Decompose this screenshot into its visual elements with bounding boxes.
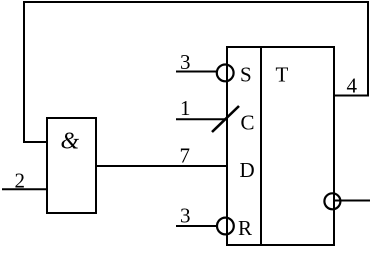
inversion bubble at S input (217, 65, 234, 82)
svg-text:&: & (61, 129, 80, 155)
wire: C clock input (net 1) (176, 118, 227, 120)
wire: S input (net 3) (176, 71, 217, 73)
inversion bubble at R input (217, 218, 234, 235)
edge-trigger slash on C input (212, 106, 239, 132)
svg-text:4: 4 (347, 74, 358, 98)
svg-text:7: 7 (180, 144, 191, 168)
svg-text:3: 3 (180, 50, 191, 74)
wire: input 2 to AND gate lower input (2, 188, 48, 190)
wire: AND gate upper input stub (23, 141, 48, 143)
wire: feedback right vertical (367, 1, 369, 97)
wire: feedback top horizontal from output 4 net (23, 1, 369, 3)
wire: output 4 horizontal from flip-flop right edge (333, 95, 369, 97)
svg-text:1: 1 (180, 96, 191, 120)
svg-text:C: C (241, 111, 255, 135)
wire: inverted output stub (333, 200, 370, 202)
svg-text:T: T (276, 62, 289, 86)
wire: AND output to D input (net 7) (96, 165, 227, 167)
svg-text:D: D (240, 158, 255, 182)
inversion bubble at output (324, 193, 340, 209)
svg-text:S: S (240, 63, 252, 87)
svg-text:R: R (238, 216, 252, 240)
wire: R input (net 3) (176, 225, 217, 227)
AND gate DD1 body (47, 118, 96, 213)
wire: feedback left vertical down to AND gate input (23, 1, 25, 143)
svg-text:3: 3 (180, 204, 191, 228)
flip-flop U1 body (227, 47, 334, 245)
flip-flop divider line (260, 47, 262, 245)
